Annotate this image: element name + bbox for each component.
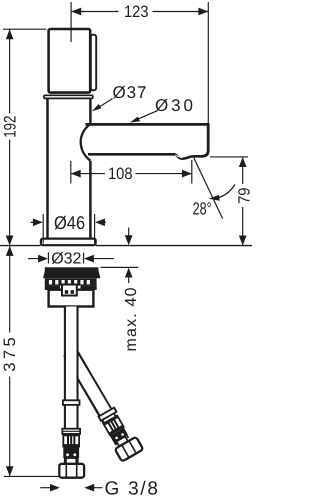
spout end cap (202, 123, 209, 156)
body left edge (46, 98, 49, 238)
spout fillet curve (81, 124, 91, 161)
label Ø37 (113, 83, 147, 102)
dimension 375 extension line bottom (4, 475, 60, 477)
diagonal hose neck (116, 436, 128, 446)
vertical hose collar (63, 400, 80, 405)
dimension Ø32 arrows (28, 255, 114, 263)
dimension 79 line (239, 157, 247, 245)
vertical hose lower band with dots (63, 452, 79, 459)
dimension 79 extension line top (210, 156, 248, 158)
dimension max40 label (123, 287, 140, 351)
dimension 108 line (71, 170, 192, 178)
dimension max40 upper stub and arrow (125, 228, 133, 246)
dimension 192 label (0, 116, 19, 138)
counter bottom line (101, 266, 139, 268)
dimension Ø32 label (51, 251, 81, 268)
mounting hardware bar 1 (45, 267, 99, 270)
vertical hose crimp sleeve (63, 434, 79, 447)
dimension 79 label (236, 188, 254, 204)
spout bottom edge with aerator wave (88, 154, 202, 158)
vertical hose crimp band (63, 447, 79, 452)
dimension 375 label (1, 337, 19, 372)
knurled locking ring (45, 278, 97, 285)
spray direction line 28 degrees (194, 158, 223, 219)
dimension Ø46 label (54, 212, 85, 233)
locking ring lower blocks (45, 286, 97, 290)
diagonal hose collar (98, 408, 116, 421)
fixing bracket (62, 285, 77, 296)
label 28 degrees (193, 199, 212, 219)
diagonal hose crimp sleeve (103, 416, 123, 435)
connection block (49, 290, 94, 307)
hose nut G3/8 (59, 464, 84, 478)
handle pin (91, 35, 96, 91)
label G 3/8 (105, 479, 159, 500)
vertical hose upper crimp collar (62, 429, 80, 434)
spout top edge (86, 123, 210, 126)
counter top surface line (0, 245, 252, 247)
dimension G3/8 arrows (40, 484, 102, 492)
svg-text:Ø37: Ø37 (113, 83, 147, 102)
handle (control cylinder) (49, 29, 91, 93)
svg-text:G 3/8: G 3/8 (105, 479, 159, 500)
dimension 123 line (71, 8, 208, 16)
dimension Ø32 extension ticks (48, 253, 83, 264)
body right edge below spout (89, 161, 92, 239)
mounting hardware bar 2 (43, 271, 100, 279)
trim ring under handle (44, 95, 93, 98)
dimension 375 line (6, 246, 14, 476)
diagonal hose crimp band (110, 428, 128, 443)
dimension 123 extension line right (spout tip) (207, 2, 209, 124)
dimension Ø46 arrows (31, 218, 107, 226)
diagonal hose (70, 352, 123, 442)
svg-text:192: 192 (0, 116, 19, 138)
svg-text:79: 79 (236, 188, 252, 204)
label Ø30 (155, 96, 193, 115)
label Ø30 leader (130, 111, 157, 123)
dimension 108 extension line left (axis) (70, 161, 72, 184)
dimension Ø46 extension lines (43, 214, 94, 244)
dimension 192 line (6, 29, 14, 245)
svg-text:28°: 28° (193, 199, 212, 219)
dimension 123 label (124, 3, 149, 21)
vertical hose casing (65, 307, 78, 464)
svg-text:max. 40: max. 40 (123, 287, 140, 351)
dimension 108 label (108, 165, 133, 183)
base flange (41, 239, 96, 246)
svg-text:108: 108 (108, 165, 133, 183)
svg-text:Ø46: Ø46 (54, 212, 85, 233)
dimension 192 extension line top (3, 28, 47, 30)
dimension 108 extension line right (aerator) (191, 160, 193, 184)
svg-text:Ø30: Ø30 (155, 96, 193, 115)
dimension 123 extension line left (faucet axis) (70, 2, 72, 42)
vertical hose neck (66, 458, 76, 464)
body right edge above spout (89, 98, 92, 125)
angle arc arrow (209, 185, 235, 201)
diagonal hose nut G3/8 (115, 437, 144, 462)
svg-text:123: 123 (124, 3, 149, 21)
svg-text:Ø32: Ø32 (51, 251, 81, 268)
label Ø37 leader (92, 99, 113, 112)
dimension max40 lower arrow and stem (125, 268, 133, 283)
svg-text:375: 375 (1, 337, 19, 372)
